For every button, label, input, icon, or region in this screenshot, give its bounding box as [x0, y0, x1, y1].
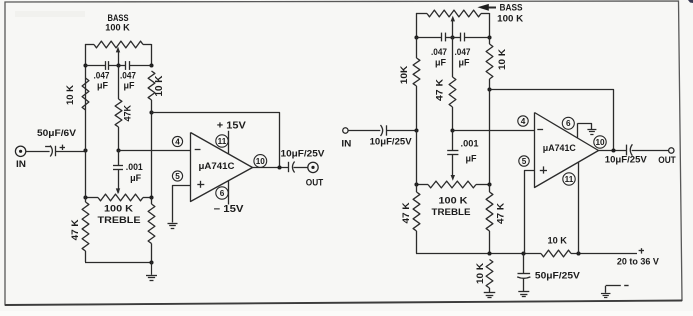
input terminal IN (left circuit) — [15, 146, 26, 169]
svg-text:IN: IN — [341, 139, 351, 149]
svg-text:10K: 10K — [399, 66, 410, 85]
ground bias lower resistor — [489, 292, 491, 294]
svg-text:4: 4 — [175, 137, 180, 146]
svg-text:μA741C: μA741C — [543, 143, 576, 154]
node cap line left (right circuit) — [414, 35, 418, 39]
resistor 10K left rail (bass input side) — [65, 78, 89, 110]
node output feedback junction — [277, 165, 281, 169]
svg-text:10 K: 10 K — [65, 85, 76, 105]
wire right rail down through crossing to treble right end — [151, 100, 153, 198]
output terminal OUT (right circuit) — [658, 148, 676, 165]
node treble left end (right) — [414, 182, 418, 186]
svg-text:50μF/25V: 50μF/25V — [535, 270, 581, 281]
capacitor 10uF/25V output coupling (right) — [605, 144, 648, 165]
svg-text:47 K: 47 K — [496, 203, 506, 224]
svg-text:BASS: BASS — [500, 3, 523, 13]
potentiometer TREBLE 100K (right) — [416, 181, 490, 218]
svg-text:100 K: 100 K — [497, 13, 523, 24]
potentiometer BASS 100K (right circuit) — [416, 10, 490, 17]
pin 6 offset stub and ground (right) — [562, 117, 591, 137]
svg-text:TREBLE: TREBLE — [432, 207, 471, 218]
wire op amp output (right) — [599, 150, 627, 152]
capacitor 50uF/6V input coupling (polarized) — [37, 128, 77, 157]
wire capacitor to input node A — [56, 151, 85, 153]
resistor 47 K treble right leg (right) — [486, 184, 505, 254]
wire bottom bias rail (right) — [416, 253, 541, 255]
svg-text:.001: .001 — [461, 138, 480, 149]
wire cap line right segment (right) — [464, 37, 490, 39]
resistor treble right leg (unlabeled) — [148, 198, 155, 263]
resistor 10 K right rail (right circuit) — [486, 37, 507, 89]
potentiometer BASS 100K — [85, 13, 152, 48]
capacitor .047uF right (right circuit) — [455, 33, 471, 68]
wire output capacitor to OUT terminal — [294, 167, 308, 169]
node output feedback junction (right) — [611, 148, 615, 152]
wire between .047 caps (right) — [445, 37, 461, 39]
resistor 47K bass wiper to inverting input — [115, 66, 133, 151]
wire noninverting input to bias node (right) — [525, 171, 535, 254]
resistor 47 K treble left leg (right) — [401, 184, 420, 254]
pin 11 V+ stub and +15V supply label — [216, 120, 247, 154]
feedback wire to output node (right) — [490, 90, 614, 151]
svg-text:.047: .047 — [455, 47, 471, 58]
svg-text:μF: μF — [130, 173, 142, 183]
pin 5 noninverting input — [172, 171, 182, 181]
svg-text:μF: μF — [458, 58, 470, 68]
wire node A down to treble left end — [85, 151, 87, 198]
op-amp U2 uA741C (right) — [535, 113, 599, 188]
capacitor .001uF treble wiper (right) — [447, 131, 479, 177]
node feedback tap right rail (right circuit) — [487, 87, 491, 91]
node treble pot left end — [83, 195, 87, 199]
svg-text:TREBLE: TREBLE — [98, 215, 141, 226]
svg-text:10μF/25V: 10μF/25V — [281, 148, 326, 159]
wire noninverting input to ground — [173, 186, 191, 223]
pin 10 output (right) — [594, 136, 606, 148]
svg-text:100 K: 100 K — [105, 23, 130, 34]
svg-text:IN: IN — [16, 159, 26, 169]
wire output capacitor to OUT terminal (right) — [632, 150, 669, 152]
capacitor 10uF/25V output coupling (left) — [281, 148, 326, 172]
wire bass pot right end down (right) — [489, 13, 491, 37]
svg-text:10: 10 — [595, 138, 605, 147]
wire cap line left segment (right) — [416, 37, 442, 39]
svg-text:μF: μF — [465, 154, 477, 164]
node treble right end (right) — [487, 182, 491, 186]
node input right circuit — [414, 128, 418, 132]
resistor 10 K bias lower (to ground) — [475, 260, 493, 293]
svg-text:6: 6 — [566, 119, 571, 128]
wire cap line right segment — [129, 65, 152, 67]
svg-text:4: 4 — [521, 117, 526, 126]
supply minus terminal with ground — [606, 286, 629, 293]
resistor 47K treble left leg — [70, 198, 89, 263]
ground noninverting input — [172, 222, 174, 224]
svg-text:5: 5 — [522, 157, 527, 166]
capacitor 50uF/25V bias filter — [517, 254, 580, 292]
capacitor 10uF/25V input coupling (right) — [370, 125, 413, 148]
pin 4 inverting input — [172, 136, 182, 146]
pin 4 inverting input (right) — [518, 116, 528, 126]
wire cap line left segment — [85, 65, 105, 67]
svg-text:μF: μF — [123, 80, 135, 90]
bass wiper arrow (right) — [451, 16, 455, 38]
svg-text:μA741C: μA741C — [199, 161, 235, 172]
node noninverting bias filter junction — [521, 251, 525, 255]
capacitor .047uF left (right circuit) — [431, 33, 447, 68]
svg-text:− 15V: − 15V — [214, 204, 245, 215]
ground bias filter capacitor — [523, 291, 525, 293]
svg-text:100 K: 100 K — [104, 204, 133, 215]
output terminal OUT (left circuit) — [306, 162, 324, 187]
svg-text:.047: .047 — [431, 47, 447, 58]
wire node A up left rail to bass network — [85, 66, 87, 152]
svg-text:11: 11 — [218, 137, 227, 146]
svg-text:6: 6 — [220, 189, 225, 198]
svg-text:47 K: 47 K — [70, 219, 80, 240]
wire input capacitor to node (right) — [386, 130, 416, 132]
resistor 10K left rail (right circuit) — [399, 37, 420, 131]
wire IN terminal to input capacitor — [26, 151, 50, 153]
node bias divider junction — [487, 251, 491, 255]
node treble pot right end — [149, 195, 153, 199]
svg-text:100 K: 100 K — [439, 196, 468, 207]
node bass left / cap line left — [83, 63, 87, 67]
capacitor .047uF right — [120, 61, 136, 90]
svg-text:5: 5 — [175, 172, 180, 181]
svg-text:OUT: OUT — [306, 178, 324, 188]
svg-text:10 K: 10 K — [475, 263, 485, 284]
treble wiper arrow (right) — [451, 175, 455, 181]
feedback wire right rail to output node — [152, 113, 280, 168]
svg-text:10: 10 — [256, 157, 266, 166]
resistor 10K right rail (bass feedback side) — [148, 71, 165, 100]
pin 11 V+ stub down to supply rail (right) — [563, 162, 579, 253]
pin 10 output — [254, 155, 267, 168]
pin 5 noninverting input (right) — [519, 156, 529, 166]
svg-text:μF: μF — [97, 80, 109, 90]
svg-text:20 to 36 V: 20 to 36 V — [617, 257, 660, 268]
wire inverting input line to op amp (right) — [453, 130, 535, 132]
svg-text:10 K: 10 K — [154, 76, 165, 97]
node bass right / cap line right — [149, 63, 153, 67]
pin 6 V- stub and -15V supply label — [214, 180, 245, 215]
svg-text:11: 11 — [565, 175, 574, 184]
svg-text:10μF/25V: 10μF/25V — [605, 155, 648, 166]
ground supply minus — [605, 292, 607, 294]
ground treble network — [151, 262, 153, 275]
ground pin 6 — [591, 129, 593, 131]
svg-text:47K: 47K — [123, 105, 133, 122]
node A input node — [83, 148, 87, 152]
node cap line wiper junction (right circuit) — [450, 35, 454, 39]
wire between .047 caps left segment — [109, 65, 126, 67]
wire bass pot right end down right rail — [151, 44, 153, 66]
treble wiper arrow — [116, 188, 120, 194]
node feedback tap on right rail — [149, 110, 153, 114]
node bass wiper / cap junction — [116, 63, 120, 67]
wire op amp output — [252, 167, 289, 169]
capacitor .047uF left — [94, 61, 110, 90]
potentiometer TREBLE 100K — [85, 194, 152, 226]
svg-text:+ 15V: + 15V — [217, 120, 247, 131]
capacitor .001uF treble wiper — [113, 151, 143, 193]
node pin 11 supply tap — [576, 251, 580, 255]
svg-text:OUT: OUT — [658, 155, 676, 165]
svg-text:47 K: 47 K — [435, 79, 446, 101]
svg-text:μF: μF — [435, 58, 447, 68]
resistor 47K wiper to inverting line (right circuit) — [435, 37, 456, 131]
bass wiper arrow to cap junction — [116, 47, 120, 66]
node B inverting line at 47K bottom — [116, 148, 120, 152]
svg-text:10μF/25V: 10μF/25V — [370, 137, 413, 148]
supply label + 20 to 36 V — [617, 248, 660, 268]
svg-text:47 K: 47 K — [401, 202, 411, 223]
node bottom return junction — [149, 260, 153, 264]
svg-text:10 K: 10 K — [547, 236, 567, 247]
wire inverting input line to op amp — [118, 150, 191, 152]
svg-text:10 K: 10 K — [497, 49, 507, 70]
BASS label arrow and text (right) — [477, 3, 523, 25]
wire input node down to treble left (right) — [416, 131, 418, 185]
wire left rail top to bass pot left end — [85, 44, 87, 66]
input terminal IN (right circuit) — [341, 128, 351, 149]
wire right rail down to treble right end (right) — [489, 89, 491, 184]
node inverting line at 47K bottom (right) — [450, 128, 454, 132]
svg-text:50μF/6V: 50μF/6V — [37, 128, 77, 139]
svg-text:.001: .001 — [126, 162, 144, 173]
resistor 10 K bias to V+ (horizontal) — [541, 236, 571, 257]
wire bass pot left end down (right) — [416, 13, 418, 37]
wire bottom return left circuit — [85, 262, 152, 264]
node cap line right (right circuit) — [487, 35, 491, 39]
op-amp U1 uA741C (left) — [191, 133, 253, 202]
wire 10K to supply plus — [571, 253, 637, 255]
wire IN to input capacitor (right) — [348, 130, 380, 132]
